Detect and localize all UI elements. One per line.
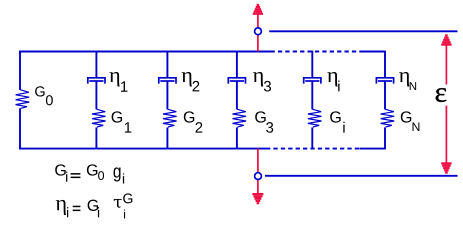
wire: bottom bus right solid segment [360, 148, 386, 150]
wire: branch etaN bottom [384, 127, 386, 149]
wire: top bus right solid segment [360, 51, 385, 53]
wire: branch eta2 piston rod to resistor [166, 81, 168, 109]
label G0 [35, 86, 53, 105]
wire: bottom output lead [265, 175, 458, 177]
dashpot eta1 piston plate [89, 80, 103, 82]
dashpot eta2 piston plate [160, 80, 174, 82]
arrowhead: epsilon arrow up [441, 34, 451, 45]
resistor G1 zigzag [92, 109, 106, 127]
equation line 2: etai = Gi taui^G [56, 193, 133, 218]
wire: left rail upper [19, 51, 21, 90]
resistor G3 zigzag [233, 109, 247, 127]
wire: branch eta3 top [236, 51, 238, 78]
label Gi [330, 111, 344, 132]
wire: branch etai piston rod to resistor [311, 81, 313, 109]
wire: left rail lower [19, 108, 21, 149]
wire: branch eta3 piston rod to resistor [236, 81, 238, 109]
arrowhead: bottom terminal down arrow [252, 193, 263, 204]
label etai [327, 72, 339, 91]
label G3 [255, 111, 273, 132]
dashpot etaN piston plate [378, 80, 392, 82]
wire: branch eta2 bottom [166, 127, 168, 149]
resistor G2 zigzag [163, 109, 177, 127]
arrowhead: epsilon arrow down [441, 162, 451, 173]
wire: branch eta1 piston rod to resistor [95, 81, 97, 109]
dashpot eta3 piston plate [230, 80, 244, 82]
wire: top bus dashed segment [271, 51, 361, 53]
label eta1 [109, 72, 127, 92]
dashpot etaN cylinder [376, 78, 393, 84]
wire: branch eta2 top [166, 51, 168, 78]
dashpot eta2 cylinder [159, 78, 176, 84]
wire: bottom terminal shaft upper [257, 149, 259, 173]
wire: bottom bus solid segment [19, 148, 266, 150]
resistor Gi zigzag [308, 109, 322, 127]
dashpot eta1 cylinder [88, 78, 105, 84]
equation line 1: Gi = G0 gi [55, 164, 124, 183]
wire: top terminal shaft lower [257, 35, 259, 52]
dashpot etai cylinder [304, 78, 321, 84]
resistor GN zigzag [381, 109, 395, 127]
wire: epsilon dimension shaft lower [445, 106, 447, 165]
wire: bottom bus dashed segment [266, 148, 360, 150]
wire: branch eta1 bottom [95, 127, 97, 149]
dashpot etai piston plate [305, 80, 319, 82]
wire: branch etaN top [384, 51, 386, 78]
label G1 [112, 111, 132, 132]
node: bottom terminal circle [255, 173, 262, 180]
wire: branch eta1 top [95, 51, 97, 78]
wire: branch eta3 bottom [236, 127, 238, 149]
dashpot eta3 cylinder [228, 78, 245, 84]
wire: bottom terminal shaft lower [257, 180, 259, 194]
label eta2 [182, 72, 200, 91]
node: top terminal circle [255, 28, 262, 35]
label G2 [184, 111, 203, 132]
wire: top terminal shaft upper [257, 13, 259, 28]
wire: branch etai top [311, 51, 313, 78]
wire: top bus solid segment [19, 51, 270, 53]
wire: branch etai bottom [311, 127, 313, 149]
label eta3 [253, 72, 271, 92]
wire: branch etaN piston rod to resistor [384, 81, 386, 109]
wire: top output lead [269, 30, 457, 32]
resistor G0 zigzag [16, 90, 30, 109]
wire: epsilon dimension shaft upper [445, 44, 447, 85]
label epsilon strain [436, 88, 447, 102]
label GN [401, 111, 420, 131]
arrowhead: top terminal up arrow [253, 4, 263, 15]
label etaN [399, 72, 416, 90]
